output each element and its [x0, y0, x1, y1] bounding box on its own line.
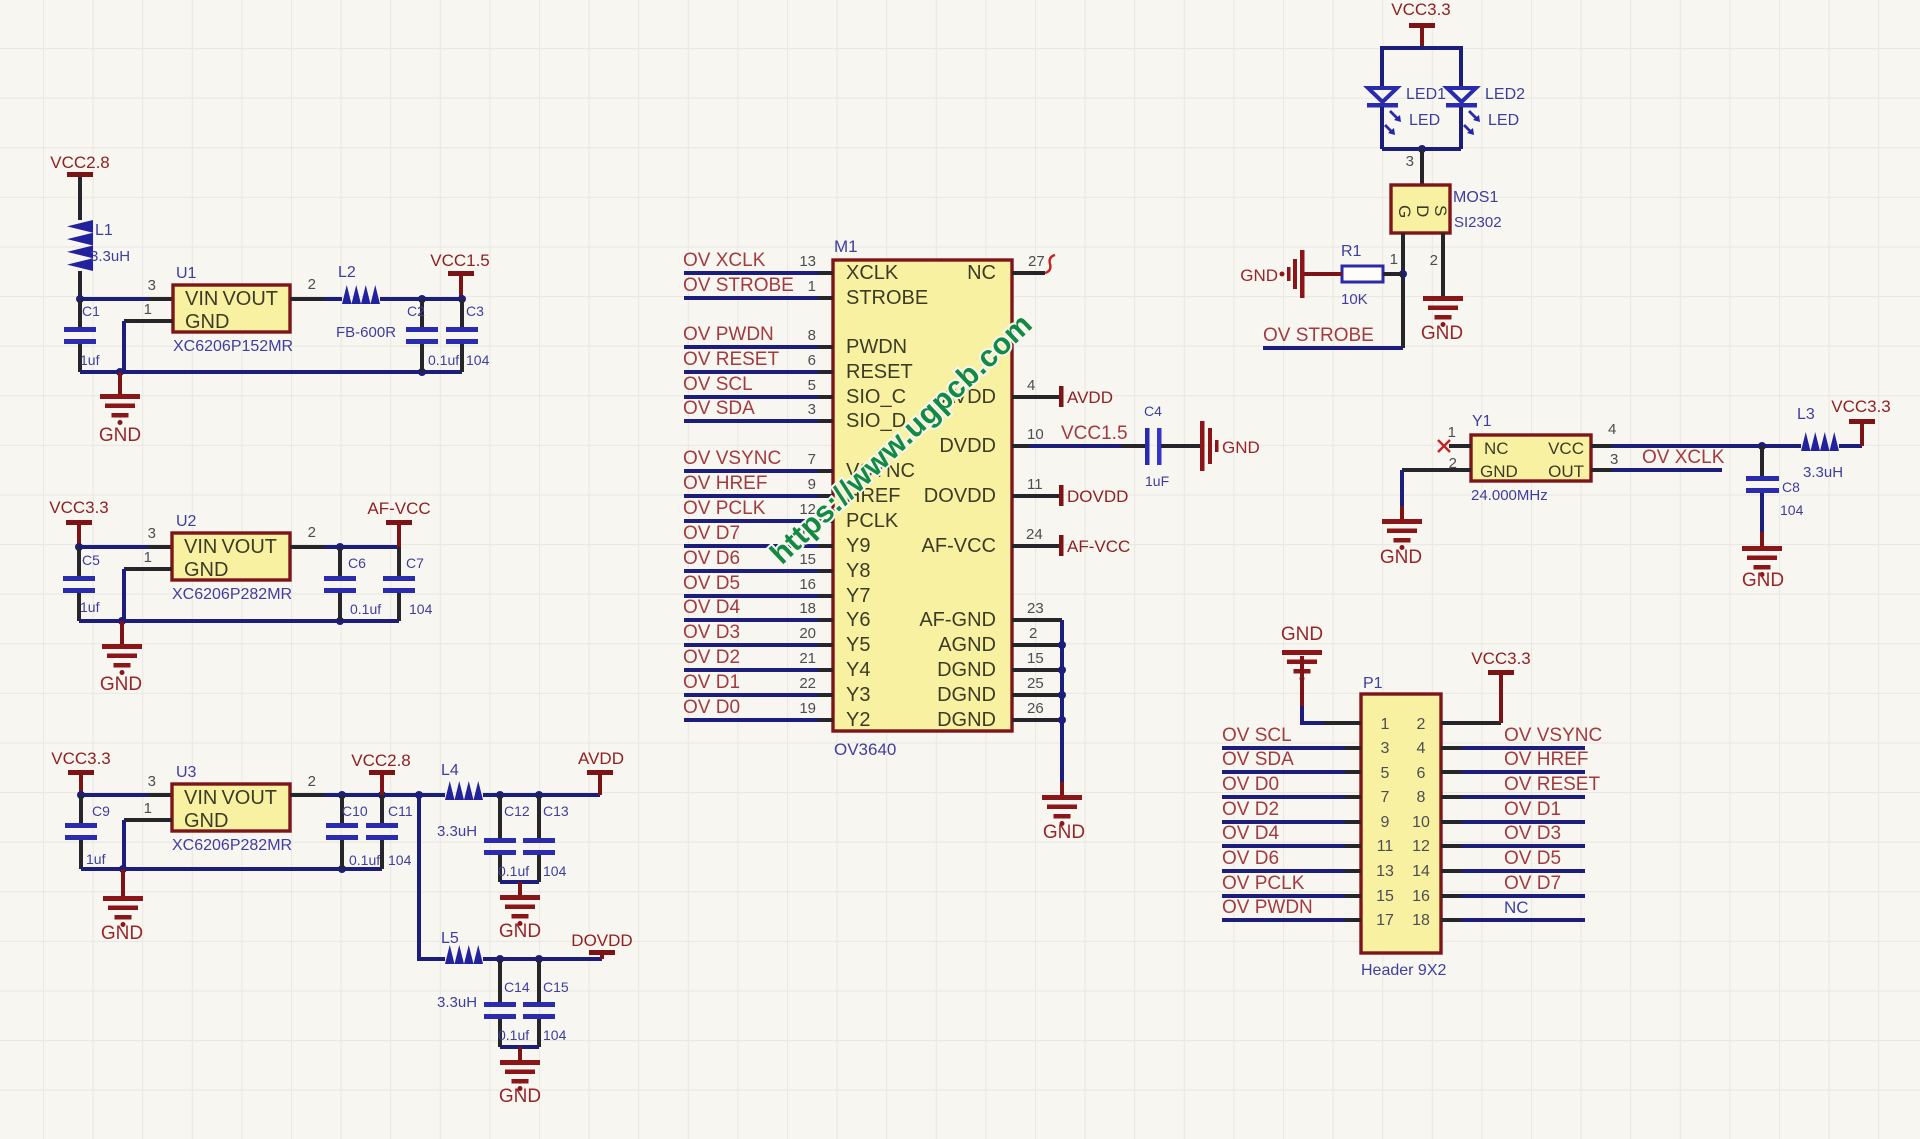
- svg-text:GND: GND: [499, 921, 541, 942]
- svg-text:4: 4: [1027, 377, 1035, 394]
- capacitor C2: [406, 299, 459, 372]
- ground GND bus: [1042, 795, 1085, 843]
- svg-text:C5: C5: [82, 552, 100, 568]
- svg-text:VIN: VIN: [185, 288, 218, 310]
- power port DOVDD: [571, 931, 632, 959]
- net OV_SCL wire: [1222, 725, 1361, 748]
- svg-text:OV D2: OV D2: [1222, 799, 1279, 820]
- svg-text:GND: GND: [1222, 438, 1260, 457]
- svg-text:104: 104: [543, 1027, 567, 1043]
- svg-text:C8: C8: [1782, 479, 1800, 495]
- svg-text:S: S: [1431, 205, 1450, 216]
- node OV_RESET wire: [683, 349, 833, 372]
- wire led split: [1382, 48, 1461, 87]
- svg-text:7: 7: [1381, 789, 1390, 806]
- svg-text:XC6206P282MR: XC6206P282MR: [172, 586, 292, 603]
- svg-text:2: 2: [308, 524, 316, 541]
- power port AVDD: [578, 749, 624, 795]
- svg-text:DOVDD: DOVDD: [1067, 487, 1128, 506]
- svg-text:OV PCLK: OV PCLK: [683, 498, 766, 519]
- svg-text:VCC3.3: VCC3.3: [49, 498, 109, 517]
- node caps top: [418, 295, 466, 303]
- node OV_D5 wire: [683, 573, 833, 596]
- capacitor C8: [1746, 446, 1804, 546]
- svg-text:12: 12: [1412, 838, 1430, 855]
- svg-text:10K: 10K: [1341, 291, 1368, 308]
- svg-text:OV RESET: OV RESET: [1504, 774, 1600, 795]
- svg-text:OV D6: OV D6: [1222, 848, 1279, 869]
- wire to U3 pin3: [77, 773, 172, 799]
- svg-text:U1: U1: [176, 265, 197, 282]
- svg-text:19: 19: [799, 700, 816, 717]
- svg-text:AF-VCC: AF-VCC: [1067, 537, 1130, 556]
- svg-text:AGND: AGND: [938, 634, 996, 656]
- svg-text:U3: U3: [176, 764, 197, 781]
- wire pin4 VCC: [1591, 421, 1801, 450]
- ground GND source: [1421, 296, 1463, 344]
- svg-text:GND: GND: [1742, 570, 1784, 591]
- svg-text:3: 3: [808, 401, 816, 418]
- svg-text:104: 104: [1780, 502, 1804, 518]
- capacitor C9: [65, 795, 110, 869]
- power port AF-VCC right: [1012, 526, 1130, 556]
- pin XCLK inside: [846, 262, 928, 731]
- svg-text:0.1uf: 0.1uf: [428, 352, 459, 368]
- svg-text:1: 1: [1390, 251, 1398, 268]
- svg-text:1: 1: [144, 549, 152, 566]
- svg-text:C13: C13: [543, 803, 569, 819]
- capacitor C6: [324, 547, 381, 621]
- svg-text:2: 2: [308, 276, 316, 293]
- pin names right inside: [919, 262, 996, 731]
- svg-text:VCC1.5: VCC1.5: [430, 251, 490, 270]
- node OV_PCLK wire: [683, 498, 833, 521]
- wire source: [1430, 233, 1443, 296]
- svg-text:1: 1: [144, 301, 152, 318]
- svg-text:L2: L2: [338, 264, 356, 281]
- net OV_D1 wire: [1441, 799, 1585, 822]
- svg-text:0.1uf: 0.1uf: [349, 852, 380, 868]
- svg-text:OV D0: OV D0: [683, 697, 740, 718]
- svg-text:DVDD: DVDD: [939, 435, 996, 457]
- wire branch to L5: [419, 795, 445, 959]
- svg-text:15: 15: [1376, 888, 1394, 905]
- wire pin2 to GND: [1402, 455, 1471, 519]
- svg-text:3.3uH: 3.3uH: [437, 994, 477, 1011]
- wire ground rail block3: [81, 865, 382, 873]
- node OV_HREF wire: [683, 473, 833, 496]
- svg-text:18: 18: [1412, 912, 1430, 929]
- svg-text:1: 1: [1448, 424, 1456, 441]
- svg-text:C4: C4: [1144, 403, 1162, 419]
- svg-text:9: 9: [1381, 814, 1390, 831]
- svg-text:VCC3.3: VCC3.3: [1471, 649, 1531, 668]
- ground GND c8: [1742, 546, 1784, 591]
- svg-text:21: 21: [799, 650, 816, 667]
- svg-text:FB-600R: FB-600R: [336, 324, 396, 341]
- svg-text:17: 17: [1376, 912, 1394, 929]
- LED LED1: [1367, 86, 1446, 149]
- svg-text:VCC2.8: VCC2.8: [50, 153, 110, 172]
- svg-text:2: 2: [1029, 625, 1037, 642]
- inductor L3: [1797, 406, 1862, 481]
- svg-text:DGND: DGND: [937, 684, 996, 706]
- svg-text:Header 9X2: Header 9X2: [1361, 962, 1446, 979]
- svg-text:LED: LED: [1409, 112, 1440, 129]
- svg-text:OV SDA: OV SDA: [1222, 749, 1294, 770]
- svg-text:STROBE: STROBE: [846, 287, 928, 309]
- svg-text:L3: L3: [1797, 406, 1815, 423]
- svg-text:GND: GND: [1421, 323, 1463, 344]
- svg-text:GND: GND: [185, 311, 229, 333]
- node OV_D7 wire: [683, 523, 833, 546]
- svg-text:OV D7: OV D7: [1504, 873, 1561, 894]
- svg-text:11: 11: [1027, 476, 1043, 493]
- svg-text:5: 5: [808, 377, 816, 394]
- svg-text:OV D1: OV D1: [683, 672, 740, 693]
- svg-text:VCC: VCC: [1548, 439, 1584, 458]
- node OV_PWDN wire: [683, 324, 833, 347]
- node OV_STROBE wire: [683, 275, 833, 298]
- svg-text:3.3uH: 3.3uH: [437, 823, 477, 840]
- svg-text:16: 16: [799, 576, 816, 593]
- svg-text:18: 18: [799, 600, 816, 617]
- capacitor C11: [366, 795, 413, 869]
- regulator U3: [172, 764, 292, 854]
- svg-text:NC: NC: [967, 262, 996, 284]
- power port VCC1.5: [430, 251, 490, 299]
- svg-text:LED: LED: [1488, 112, 1519, 129]
- svg-text:9: 9: [808, 476, 816, 493]
- svg-text:Y9: Y9: [846, 535, 870, 557]
- svg-text:XC6206P152MR: XC6206P152MR: [173, 338, 293, 355]
- svg-text:OV3640: OV3640: [834, 740, 896, 759]
- net OV_STROBE wire: [1263, 325, 1403, 348]
- svg-text:1uF: 1uF: [1145, 473, 1169, 489]
- power port AF-VCC: [367, 499, 430, 547]
- svg-text:GND: GND: [99, 425, 141, 446]
- svg-text:C2: C2: [407, 303, 425, 319]
- net OV_D7 wire: [1441, 873, 1585, 896]
- pin numbers p1: [1376, 716, 1430, 929]
- svg-text:Y6: Y6: [846, 609, 870, 631]
- svg-text:C3: C3: [466, 303, 484, 319]
- capacitor C12: [484, 795, 530, 882]
- svg-text:OV D3: OV D3: [683, 622, 740, 643]
- svg-text:PWDN: PWDN: [846, 336, 907, 358]
- svg-text:1uf: 1uf: [86, 851, 106, 867]
- svg-text:Y3: Y3: [846, 684, 870, 706]
- wire U1 pin1 GND: [124, 301, 173, 372]
- svg-text:4: 4: [1417, 740, 1426, 757]
- svg-text:22: 22: [799, 675, 816, 692]
- svg-text:DGND: DGND: [937, 659, 996, 681]
- capacitor C14: [484, 959, 530, 1047]
- svg-text:OUT: OUT: [1548, 462, 1584, 481]
- svg-text:L5: L5: [441, 930, 459, 947]
- svg-text:R1: R1: [1341, 243, 1362, 260]
- capacitor C5: [63, 547, 100, 621]
- ground GND y1: [1380, 519, 1422, 568]
- svg-text:VIN: VIN: [184, 787, 217, 809]
- svg-text:SIO_C: SIO_C: [846, 386, 906, 408]
- svg-text:20: 20: [799, 625, 816, 642]
- inductor L1: [67, 220, 130, 299]
- svg-text:SI2302: SI2302: [1454, 214, 1502, 231]
- svg-text:OV STROBE: OV STROBE: [683, 275, 794, 296]
- power port VCC3.3 block3: [51, 749, 111, 795]
- svg-text:Y2: Y2: [846, 709, 870, 731]
- resistor R1: [1341, 243, 1403, 308]
- svg-text:C15: C15: [543, 979, 569, 995]
- svg-text:1uf: 1uf: [80, 352, 100, 368]
- node OV_D3 wire: [683, 622, 833, 645]
- op-amp U? IC M1 OV3640 body: [833, 237, 1012, 759]
- svg-text:RESET: RESET: [846, 361, 913, 383]
- ground GND p1: [1281, 624, 1323, 723]
- svg-text:VIN: VIN: [184, 536, 217, 558]
- svg-text:OV VSYNC: OV VSYNC: [683, 448, 781, 469]
- svg-text:16: 16: [1412, 888, 1430, 905]
- power port VCC2.8 block3: [351, 751, 411, 795]
- svg-text:L4: L4: [441, 762, 459, 779]
- svg-text:3: 3: [1381, 740, 1390, 757]
- svg-text:OV D6: OV D6: [683, 548, 740, 569]
- svg-text:C9: C9: [92, 803, 110, 819]
- svg-text:XCLK: XCLK: [846, 262, 899, 284]
- net NC wire: [1441, 898, 1585, 920]
- svg-text:GND: GND: [499, 1086, 541, 1107]
- svg-text:AVDD: AVDD: [1067, 388, 1113, 407]
- transistor MOS1 SI2302: [1391, 185, 1502, 233]
- net OV_SDA wire: [1222, 749, 1361, 772]
- svg-text:Y7: Y7: [846, 585, 870, 607]
- pin NC 27 no-connect: [1012, 253, 1055, 273]
- svg-text:VCC3.3: VCC3.3: [1831, 397, 1891, 416]
- svg-text:104: 104: [543, 863, 567, 879]
- ground GND block3: [101, 869, 143, 944]
- inductor L2 FB-600R: [336, 264, 462, 341]
- svg-text:0.1uf: 0.1uf: [350, 601, 381, 617]
- svg-text:VCC3.3: VCC3.3: [51, 749, 111, 768]
- wire led join to mosfet: [1382, 145, 1461, 185]
- header P1 body: [1361, 675, 1446, 979]
- svg-text:3: 3: [148, 277, 156, 294]
- svg-text:11: 11: [1377, 838, 1394, 855]
- svg-text:23: 23: [1027, 600, 1044, 617]
- svg-text:OV VSYNC: OV VSYNC: [1504, 725, 1602, 746]
- svg-text:AF-GND: AF-GND: [919, 609, 996, 631]
- svg-text:15: 15: [1027, 650, 1044, 667]
- svg-text:7: 7: [808, 451, 816, 468]
- svg-text:3.3uH: 3.3uH: [1803, 464, 1843, 481]
- svg-text:25: 25: [1027, 675, 1044, 692]
- svg-text:DGND: DGND: [937, 709, 996, 731]
- wire gate: [1390, 233, 1407, 348]
- svg-text:3: 3: [148, 525, 156, 542]
- svg-text:AF-VCC: AF-VCC: [367, 499, 430, 518]
- wire U2 pin1 GND: [124, 549, 172, 621]
- svg-text:OV D7: OV D7: [683, 523, 740, 544]
- svg-text:C6: C6: [348, 555, 366, 571]
- net OV_VSYNC wire: [1441, 725, 1602, 748]
- inductor L4: [437, 762, 600, 840]
- svg-text:U2: U2: [176, 513, 197, 530]
- svg-text:OV D4: OV D4: [683, 597, 740, 618]
- svg-text:D: D: [1413, 205, 1432, 217]
- wire U2 pin2: [290, 524, 399, 551]
- node OV_D1 wire: [683, 672, 833, 695]
- capacitor C13: [523, 795, 569, 882]
- svg-text:1: 1: [144, 800, 152, 817]
- svg-text:5: 5: [1381, 765, 1390, 782]
- svg-text:GND: GND: [1240, 266, 1278, 285]
- ground port GND right of C4: [1200, 421, 1260, 471]
- wire U1 pin2: [290, 276, 342, 299]
- svg-text:VOUT: VOUT: [221, 787, 277, 809]
- power port VCC3.3 p1: [1441, 649, 1531, 723]
- svg-text:14: 14: [1412, 863, 1430, 880]
- node OV_D6 wire: [683, 548, 833, 571]
- net OV_D2 wire: [1222, 799, 1361, 822]
- svg-text:OV D5: OV D5: [1504, 848, 1561, 869]
- svg-text:Y4: Y4: [846, 659, 870, 681]
- svg-text:LED2: LED2: [1485, 86, 1525, 103]
- net OV_PCLK wire: [1222, 873, 1361, 896]
- svg-text:10: 10: [1027, 426, 1044, 443]
- svg-text:MOS1: MOS1: [1453, 189, 1498, 206]
- svg-text:OV SDA: OV SDA: [683, 398, 755, 419]
- svg-text:GND: GND: [101, 923, 143, 944]
- svg-text:3: 3: [148, 773, 156, 790]
- svg-text:OV XCLK: OV XCLK: [683, 250, 766, 271]
- power port AVDD right: [1012, 377, 1113, 407]
- svg-text:2: 2: [308, 773, 316, 790]
- capacitor C10: [326, 795, 380, 869]
- wire U3 pin1 GND: [124, 800, 172, 869]
- svg-text:3: 3: [1406, 153, 1414, 170]
- power port VCC2.8: [50, 153, 110, 220]
- svg-text:C12: C12: [504, 803, 530, 819]
- svg-text:24: 24: [1026, 526, 1043, 543]
- wire caps join DOVDD: [500, 1045, 539, 1049]
- svg-text:27: 27: [1028, 253, 1045, 270]
- svg-text:GND: GND: [100, 674, 142, 695]
- regulator U2: [172, 513, 292, 603]
- svg-text:OV PWDN: OV PWDN: [1222, 897, 1313, 918]
- power port VCC3.3 y1: [1831, 397, 1891, 446]
- wire pin1 stub: [1323, 721, 1361, 725]
- svg-text:GND: GND: [1480, 462, 1518, 481]
- net OV_D6 wire: [1222, 848, 1361, 871]
- svg-text:2: 2: [1430, 252, 1438, 269]
- net OV_D3 wire: [1441, 823, 1585, 846]
- svg-text:OV D1: OV D1: [1504, 799, 1561, 820]
- svg-text:13: 13: [1376, 863, 1394, 880]
- wire caps join AVDD: [500, 880, 539, 884]
- node OV_D0 wire: [683, 697, 833, 720]
- svg-text:P1: P1: [1363, 675, 1383, 692]
- wire node to U1 pin3: [76, 277, 173, 303]
- svg-text:10: 10: [1412, 814, 1430, 831]
- svg-text:26: 26: [1027, 700, 1044, 717]
- svg-text:LED1: LED1: [1406, 86, 1446, 103]
- svg-text:GND: GND: [1281, 624, 1323, 645]
- svg-text:24.000MHz: 24.000MHz: [1471, 487, 1548, 504]
- svg-text:1uf: 1uf: [80, 599, 100, 615]
- capacitor C3: [446, 299, 490, 372]
- power port VCC3.3 block2: [49, 498, 109, 547]
- svg-text:GND: GND: [1380, 547, 1422, 568]
- wire AF-GND bus: [1012, 600, 1066, 795]
- net OV_D4 wire: [1222, 823, 1361, 846]
- svg-text:OV D2: OV D2: [683, 647, 740, 668]
- power port VCC3.3 led: [1391, 0, 1451, 48]
- wire to U2 pin3: [75, 525, 172, 551]
- wire U3 pin2 to AVDD: [290, 773, 445, 799]
- pin 1 NC with X: [1438, 424, 1471, 452]
- net OV_HREF wire: [1441, 749, 1588, 772]
- svg-text:OV D5: OV D5: [683, 573, 740, 594]
- svg-text:OV PCLK: OV PCLK: [1222, 873, 1305, 894]
- svg-text:OV D3: OV D3: [1504, 823, 1561, 844]
- node OV_SDA wire: [683, 398, 833, 421]
- svg-text:104: 104: [466, 352, 490, 368]
- svg-text:VCC1.5: VCC1.5: [1061, 423, 1128, 444]
- svg-text:OV RESET: OV RESET: [683, 349, 779, 370]
- svg-text:GND: GND: [184, 810, 228, 832]
- ground GND block1: [99, 372, 141, 446]
- svg-text:8: 8: [1417, 789, 1426, 806]
- svg-text:L1: L1: [95, 222, 113, 239]
- ground GND avdd-caps: [499, 882, 541, 942]
- node OV_D4 wire: [683, 597, 833, 620]
- capacitor C15: [523, 959, 569, 1047]
- node OV_VSYNC wire: [683, 448, 833, 471]
- svg-text:OV HREF: OV HREF: [1504, 749, 1588, 770]
- svg-text:VCC3.3: VCC3.3: [1391, 0, 1451, 19]
- wire ground rail block1: [80, 368, 462, 376]
- svg-text:Y8: Y8: [846, 560, 870, 582]
- capacitor C1: [64, 299, 100, 372]
- svg-text:13: 13: [799, 253, 816, 270]
- ground port GND left of R1: [1240, 250, 1342, 298]
- svg-text:VOUT: VOUT: [221, 536, 277, 558]
- svg-text:AF-VCC: AF-VCC: [922, 535, 996, 557]
- svg-text:VOUT: VOUT: [222, 288, 278, 310]
- svg-text:104: 104: [388, 852, 412, 868]
- svg-text:NC: NC: [1504, 898, 1529, 917]
- svg-text:C1: C1: [82, 303, 100, 319]
- net VCC1.5 wire DVDD: [1012, 423, 1146, 446]
- svg-text:XC6206P282MR: XC6206P282MR: [172, 837, 292, 854]
- svg-text:0.1uf: 0.1uf: [498, 1027, 529, 1043]
- svg-text:2: 2: [1449, 455, 1457, 472]
- svg-text:1: 1: [1381, 716, 1390, 733]
- capacitor C7: [383, 547, 433, 621]
- svg-text:PCLK: PCLK: [846, 510, 899, 532]
- svg-text:4: 4: [1608, 421, 1616, 438]
- svg-text:OV PWDN: OV PWDN: [683, 324, 774, 345]
- svg-text:M1: M1: [834, 237, 858, 256]
- svg-text:GND: GND: [1043, 822, 1085, 843]
- net OV_D5 wire: [1441, 848, 1585, 871]
- svg-text:DOVDD: DOVDD: [571, 931, 632, 950]
- svg-text:C10: C10: [342, 803, 368, 819]
- wire ground rail block2: [79, 617, 399, 625]
- net OV_D0 wire: [1222, 774, 1361, 797]
- svg-text:OV D4: OV D4: [1222, 823, 1279, 844]
